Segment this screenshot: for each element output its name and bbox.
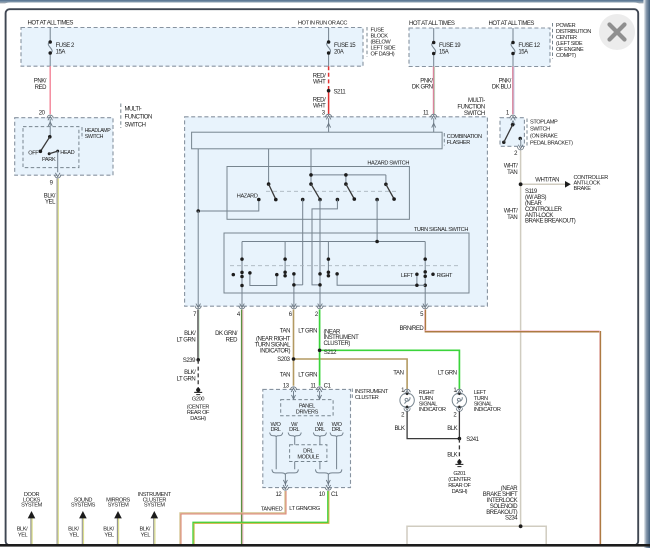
svg-text:CLUSTER: CLUSTER (355, 395, 379, 401)
svg-text:PARK: PARK (42, 157, 56, 163)
svg-text:BLK: BLK (395, 426, 405, 432)
svg-text:COMBINATION: COMBINATION (447, 134, 482, 140)
svg-text:LT GRN/ORG: LT GRN/ORG (289, 506, 320, 512)
svg-text:BLK/: BLK/ (184, 331, 196, 337)
svg-text:HEAD: HEAD (60, 150, 74, 156)
svg-text:FUSE 2: FUSE 2 (56, 43, 75, 49)
svg-text:DK GRN: DK GRN (412, 85, 433, 91)
svg-text:YEL: YEL (69, 533, 79, 539)
svg-text:PNK/: PNK/ (420, 78, 433, 84)
svg-text:DRL: DRL (315, 427, 325, 433)
svg-text:FUNCTION: FUNCTION (457, 105, 485, 111)
svg-text:BRAKE: BRAKE (574, 186, 592, 192)
svg-text:S203: S203 (277, 357, 290, 363)
svg-text:YEL: YEL (18, 533, 28, 539)
svg-text:LT GRN: LT GRN (298, 373, 317, 379)
svg-text:20A: 20A (334, 50, 344, 56)
svg-text:SYSTEM: SYSTEM (21, 503, 42, 509)
svg-text:RED/: RED/ (313, 97, 326, 103)
svg-text:PNK/: PNK/ (34, 79, 47, 85)
svg-text:HAZARD: HAZARD (237, 194, 258, 200)
svg-text:WHT/TAN: WHT/TAN (535, 178, 559, 184)
svg-text:DK BLU: DK BLU (492, 85, 511, 91)
svg-text:LEFT: LEFT (401, 273, 414, 279)
svg-text:COMPT): COMPT) (556, 53, 576, 59)
svg-text:FUSE 12: FUSE 12 (518, 43, 540, 49)
svg-text:FUSE 15: FUSE 15 (334, 43, 356, 49)
svg-text:SWITCH: SWITCH (530, 126, 550, 132)
svg-text:STOPLAMP: STOPLAMP (530, 119, 558, 125)
svg-text:HOT AT ALL TIMES: HOT AT ALL TIMES (409, 21, 455, 27)
svg-text:RED: RED (35, 85, 47, 91)
svg-text:TAN: TAN (393, 371, 403, 377)
svg-text:YEL: YEL (104, 533, 114, 539)
svg-text:SYSTEMS: SYSTEMS (71, 503, 96, 509)
svg-text:LT GRN: LT GRN (438, 371, 457, 377)
svg-text:WHT: WHT (313, 104, 326, 110)
svg-text:SYSTEM: SYSTEM (144, 503, 165, 509)
svg-text:HOT AT ALL TIMES: HOT AT ALL TIMES (489, 21, 535, 27)
svg-text:MULTI-: MULTI- (125, 107, 142, 113)
svg-text:BLK/: BLK/ (184, 370, 196, 376)
svg-text:15A: 15A (56, 50, 66, 56)
svg-text:S241: S241 (466, 437, 479, 443)
svg-text:SWITCH: SWITCH (125, 122, 146, 128)
svg-text:DRL: DRL (332, 427, 342, 433)
svg-text:C1: C1 (324, 383, 332, 389)
svg-text:INDICATOR: INDICATOR (474, 407, 501, 413)
svg-text:SWITCH: SWITCH (85, 134, 104, 140)
svg-text:HOT IN RUN OR ACC: HOT IN RUN OR ACC (298, 21, 347, 27)
svg-text:TURN SIGNAL SWITCH: TURN SIGNAL SWITCH (414, 227, 469, 233)
svg-text:C1: C1 (331, 492, 339, 498)
svg-text:TAN: TAN (507, 170, 517, 176)
svg-text:RED/: RED/ (313, 73, 326, 79)
svg-text:CLUSTER): CLUSTER) (324, 341, 351, 347)
svg-text:RED: RED (226, 337, 238, 343)
svg-text:FUNCTION: FUNCTION (125, 115, 153, 121)
svg-text:TAN: TAN (280, 373, 290, 379)
svg-text:(ON BRAKE: (ON BRAKE (530, 134, 558, 140)
svg-text:RIGHT: RIGHT (437, 273, 453, 279)
svg-text:OFF: OFF (28, 150, 39, 156)
svg-text:DASH): DASH) (190, 416, 206, 422)
svg-text:S234: S234 (505, 516, 518, 522)
svg-text:DASH): DASH) (452, 489, 468, 495)
svg-text:TAN: TAN (280, 329, 290, 335)
svg-text:DRL: DRL (289, 427, 299, 433)
svg-text:OF DASH): OF DASH) (371, 52, 395, 58)
svg-text:SWITCH: SWITCH (464, 111, 485, 117)
svg-text:15A: 15A (439, 50, 449, 56)
svg-text:FLASHER: FLASHER (447, 140, 470, 146)
svg-text:LT GRN: LT GRN (177, 376, 196, 382)
svg-text:S212: S212 (324, 350, 337, 356)
svg-text:BRAKE BREAKOUT): BRAKE BREAKOUT) (525, 219, 576, 225)
svg-text:MULTI-: MULTI- (468, 98, 485, 104)
svg-text:WHT/: WHT/ (504, 208, 518, 214)
svg-text:PNK/: PNK/ (499, 78, 512, 84)
svg-text:TAN/RED: TAN/RED (261, 506, 283, 512)
svg-text:G200: G200 (192, 396, 204, 402)
svg-text:HAZARD SWITCH: HAZARD SWITCH (367, 161, 409, 167)
svg-text:SYSTEM: SYSTEM (108, 503, 129, 509)
svg-text:DRL: DRL (270, 427, 280, 433)
svg-text:BLK/: BLK/ (44, 193, 56, 199)
svg-text:BLK: BLK (447, 452, 457, 458)
svg-text:YEL: YEL (141, 533, 151, 539)
svg-text:S239: S239 (183, 358, 196, 364)
svg-text:PEDAL BRACKET): PEDAL BRACKET) (530, 141, 573, 147)
svg-text:MODULE: MODULE (297, 454, 319, 460)
svg-text:INDICATOR: INDICATOR (419, 407, 446, 413)
svg-text:WHT/: WHT/ (504, 163, 518, 169)
svg-text:BRN/RED: BRN/RED (399, 326, 424, 332)
svg-text:15A: 15A (518, 50, 528, 56)
svg-text:WHT: WHT (313, 80, 326, 86)
svg-text:DK GRN/: DK GRN/ (215, 331, 238, 337)
svg-text:LT GRN: LT GRN (298, 329, 317, 335)
svg-text:HOT AT ALL TIMES: HOT AT ALL TIMES (28, 21, 74, 27)
svg-text:BLK: BLK (447, 426, 457, 432)
svg-text:INDICATOR): INDICATOR) (260, 348, 290, 354)
svg-text:LT GRN: LT GRN (177, 337, 196, 343)
svg-text:YEL: YEL (45, 200, 56, 206)
svg-text:FUSE 19: FUSE 19 (439, 43, 461, 49)
svg-text:TAN: TAN (507, 215, 517, 221)
svg-text:DRIVERS: DRIVERS (296, 409, 319, 415)
svg-text:S211: S211 (334, 90, 347, 96)
